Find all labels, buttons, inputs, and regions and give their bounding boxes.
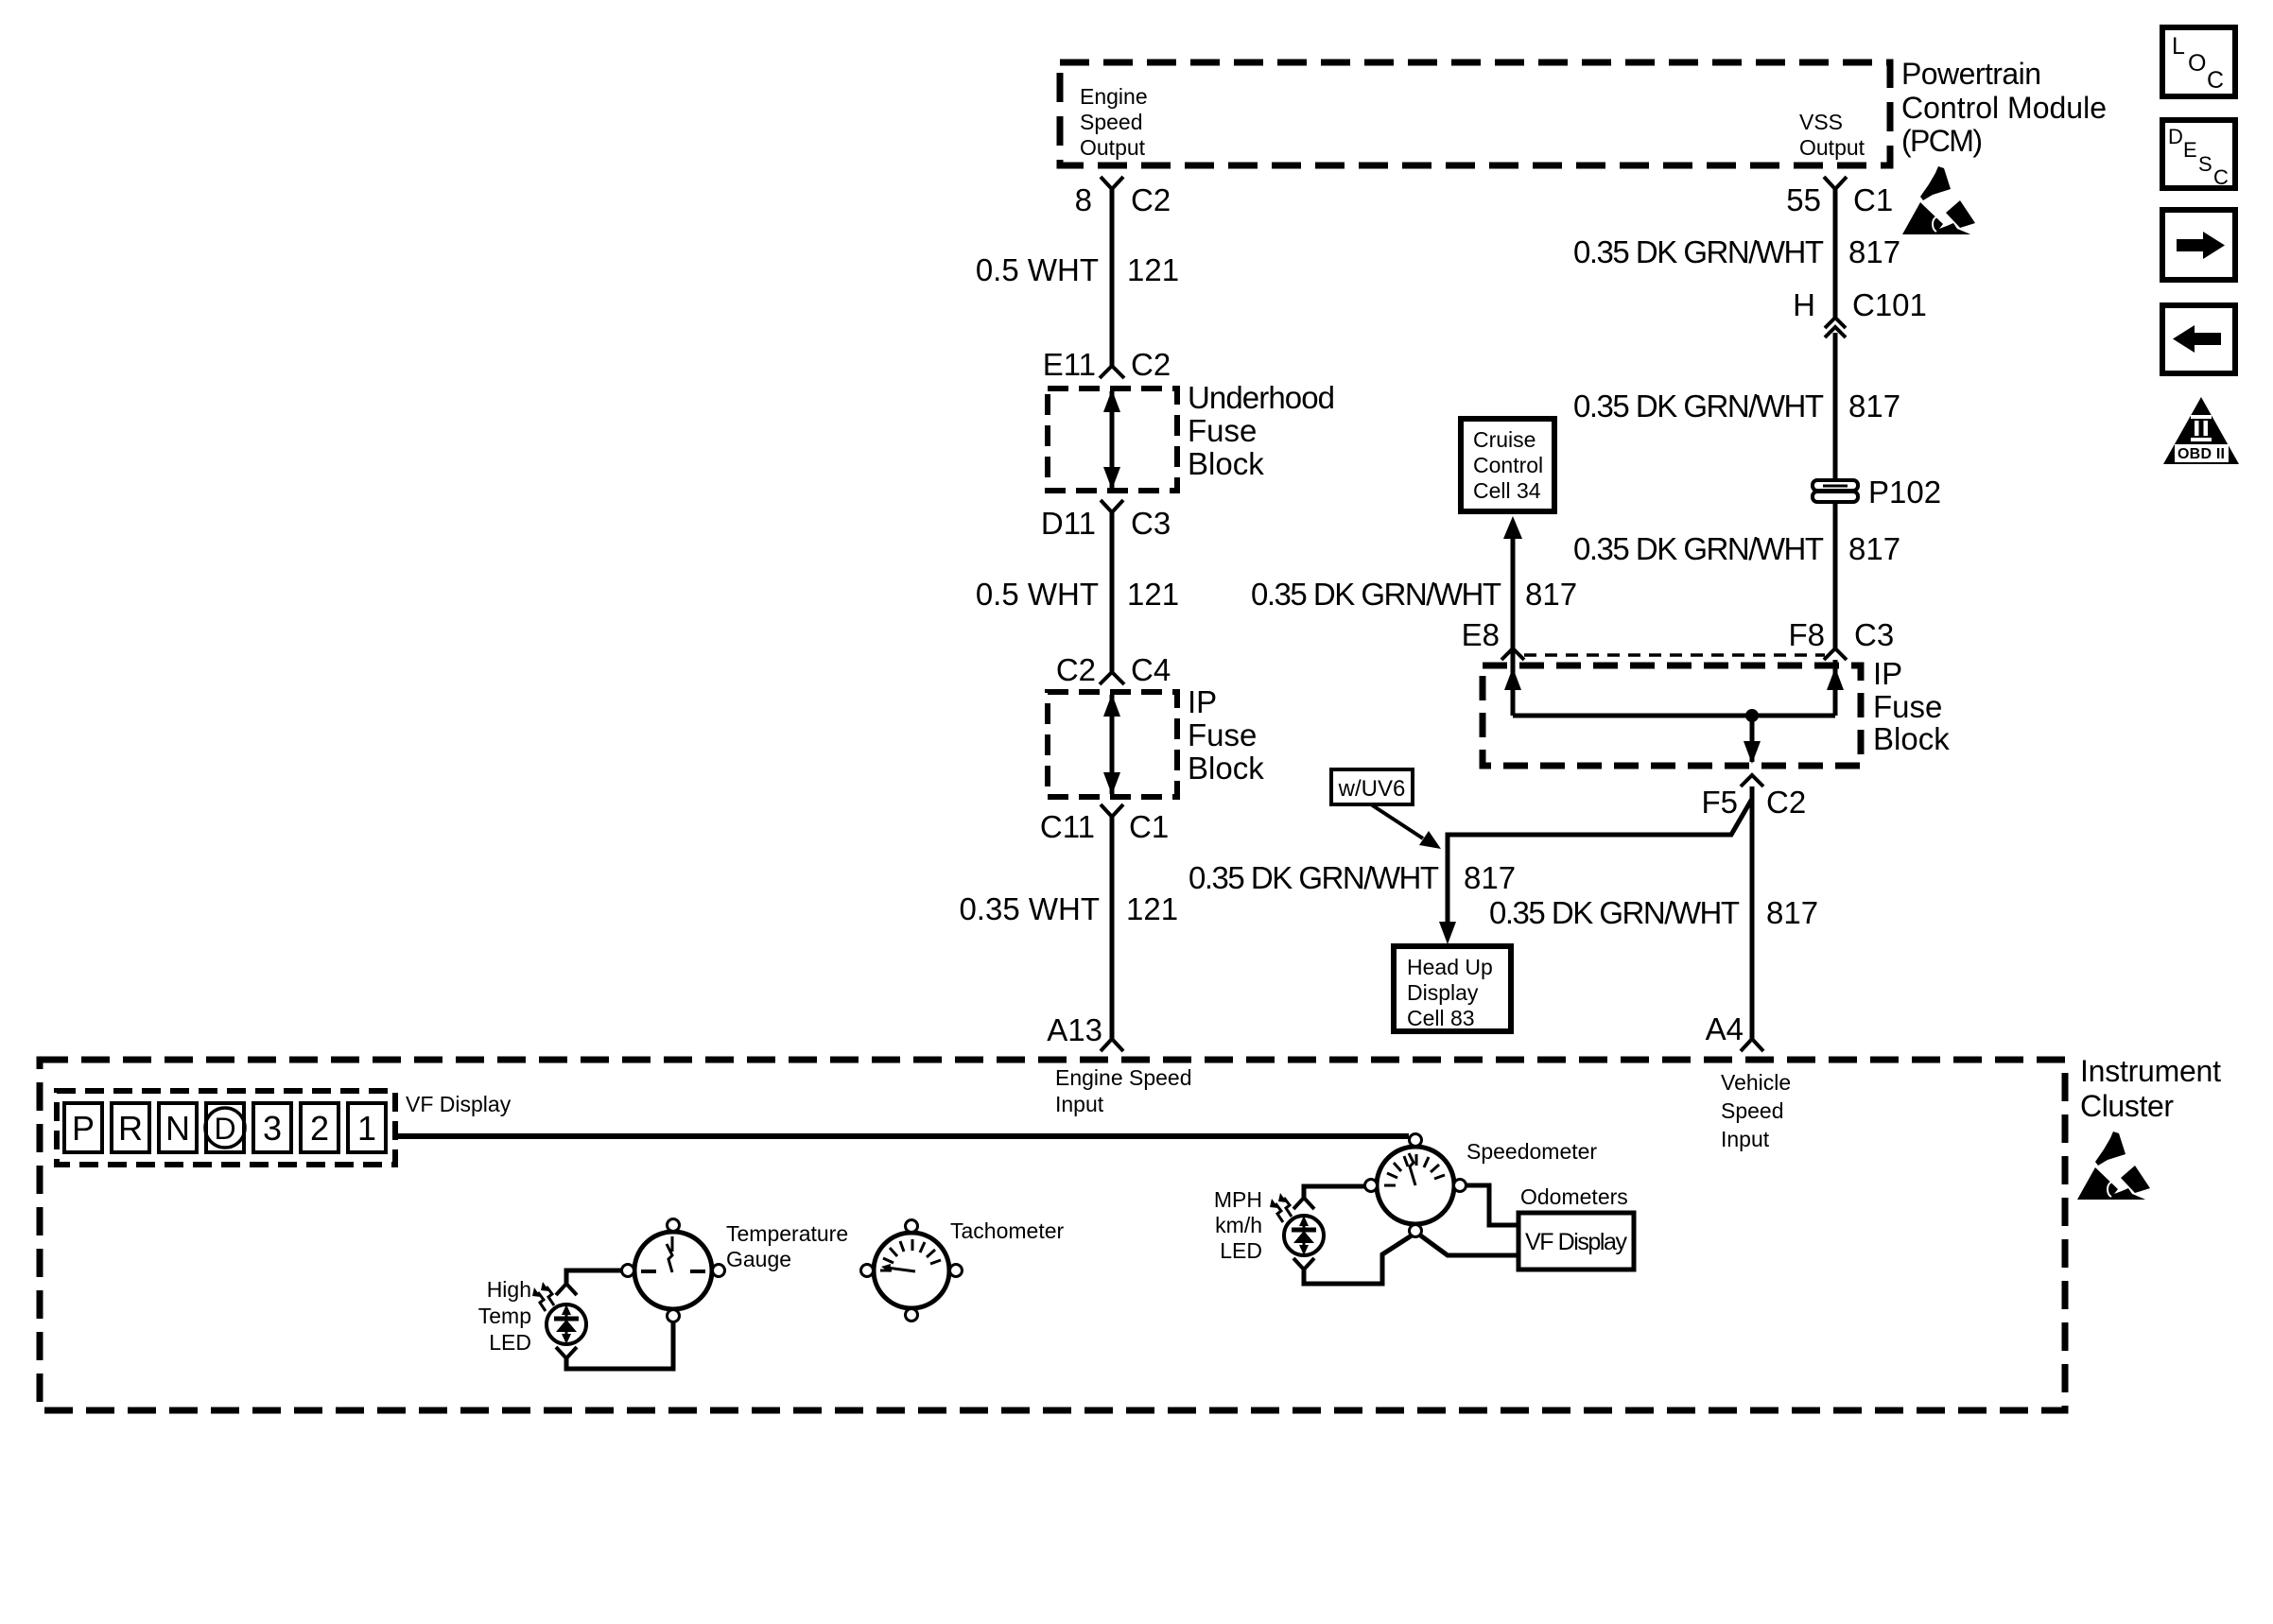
connector chevron E11 C2 bbox=[1100, 366, 1124, 378]
junction dot bbox=[1745, 709, 1759, 722]
svg-text:121: 121 bbox=[1126, 891, 1178, 926]
svg-text:0.35 DK GRN/WHT: 0.35 DK GRN/WHT bbox=[1251, 577, 1501, 612]
svg-text:C2: C2 bbox=[1056, 652, 1096, 687]
wire High Temp LED bottom loop to gauge bottom terminal bbox=[566, 1322, 673, 1369]
svg-text:R: R bbox=[118, 1109, 143, 1148]
svg-text:Fuse: Fuse bbox=[1188, 413, 1257, 448]
svg-text:Input: Input bbox=[1055, 1092, 1104, 1116]
svg-text:P102: P102 bbox=[1868, 475, 1941, 510]
svg-text:E8: E8 bbox=[1462, 617, 1500, 652]
svg-text:Engine Speed: Engine Speed bbox=[1055, 1065, 1192, 1090]
connector chevron E8 bbox=[1501, 648, 1524, 660]
in-line connector P102 bbox=[1813, 480, 1858, 502]
wire MPH LED bottom loop to speedometer bottom terminal bbox=[1304, 1235, 1412, 1284]
svg-text:Cell 83: Cell 83 bbox=[1407, 1006, 1475, 1030]
arrow up (IP fuse block top) bbox=[1103, 694, 1120, 717]
svg-text:C: C bbox=[2207, 67, 2224, 94]
svg-text:H: H bbox=[1793, 287, 1815, 322]
bus wire inside fuse block bbox=[1513, 714, 1835, 718]
svg-text:OBD II: OBD II bbox=[2178, 446, 2225, 462]
svg-text:O: O bbox=[2188, 50, 2206, 77]
Instrument Cluster title bbox=[2080, 1054, 2221, 1123]
svg-text:0.35 DK GRN/WHT: 0.35 DK GRN/WHT bbox=[1189, 860, 1439, 895]
arrow up inside block (F8) bbox=[1827, 667, 1844, 690]
wire 121 segment (PCM to underhood fuse block) bbox=[1110, 188, 1115, 366]
svg-text:C: C bbox=[2213, 165, 2229, 189]
svg-text:Temperature: Temperature bbox=[726, 1221, 848, 1246]
forward arrow icon box bbox=[2162, 210, 2235, 280]
svg-text:Cluster: Cluster bbox=[2080, 1089, 2174, 1123]
wire 121 segment (IP fuse block to cluster) bbox=[1110, 816, 1115, 1040]
svg-text:C2: C2 bbox=[1131, 347, 1171, 382]
svg-text:817: 817 bbox=[1525, 577, 1577, 612]
arrow up inside block (E8) bbox=[1504, 667, 1521, 690]
svg-text:D11: D11 bbox=[1041, 506, 1096, 541]
svg-text:IP: IP bbox=[1188, 684, 1217, 719]
MPH LED emission arrows bbox=[1270, 1193, 1292, 1222]
svg-text:F8: F8 bbox=[1788, 617, 1825, 652]
ESD sensitive symbol (instrument cluster) bbox=[2077, 1132, 2150, 1200]
svg-text:Block: Block bbox=[1188, 751, 1264, 786]
svg-text:Cell 34: Cell 34 bbox=[1473, 478, 1541, 503]
svg-text:Underhood: Underhood bbox=[1188, 380, 1335, 415]
connector chevron A13 bbox=[1101, 1039, 1123, 1051]
Speedometer bbox=[1365, 1134, 1466, 1237]
svg-text:Vehicle: Vehicle bbox=[1721, 1070, 1791, 1095]
label High Temp LED bbox=[478, 1277, 531, 1355]
svg-text:C101: C101 bbox=[1852, 287, 1927, 322]
chevron above High Temp LED bbox=[556, 1284, 577, 1295]
svg-text:S: S bbox=[2198, 152, 2212, 176]
arrow down to head up display bbox=[1439, 922, 1456, 944]
svg-text:C2: C2 bbox=[1131, 182, 1171, 217]
svg-text:MPH: MPH bbox=[1214, 1187, 1262, 1212]
wire down from junction bbox=[1750, 716, 1755, 762]
svg-text:High: High bbox=[487, 1277, 531, 1302]
label Underhood Fuse Block bbox=[1188, 380, 1335, 481]
arrow up (fuse block top) bbox=[1103, 389, 1120, 412]
Instrument Cluster dashed box bbox=[40, 1060, 2065, 1410]
PRNDL cell P bbox=[64, 1103, 102, 1152]
PRNDL cell 2 bbox=[301, 1103, 338, 1152]
svg-text:0.5 WHT: 0.5 WHT bbox=[976, 577, 1099, 612]
wire 817 segment (P102 to F8) bbox=[1833, 501, 1838, 649]
VF Display (PRNDL) dashed box bbox=[57, 1091, 395, 1165]
svg-text:VF Display: VF Display bbox=[406, 1092, 512, 1116]
svg-text:IP: IP bbox=[1873, 656, 1902, 691]
svg-text:Speedometer: Speedometer bbox=[1466, 1139, 1597, 1164]
High Temp LED emission arrows bbox=[532, 1282, 554, 1311]
svg-text:121: 121 bbox=[1127, 577, 1179, 612]
svg-text:Speed: Speed bbox=[1721, 1098, 1784, 1123]
label Engine Speed Input bbox=[1055, 1065, 1192, 1116]
label MPH km/h LED bbox=[1214, 1187, 1262, 1263]
label Temperature Gauge bbox=[726, 1221, 848, 1271]
svg-text:Display: Display bbox=[1407, 980, 1479, 1005]
svg-text:VF Display: VF Display bbox=[1525, 1229, 1628, 1255]
PRNDL cell 3 bbox=[253, 1103, 291, 1152]
svg-text:817: 817 bbox=[1848, 234, 1900, 269]
svg-text:3: 3 bbox=[263, 1109, 282, 1148]
PRNDL cell 1 bbox=[348, 1103, 386, 1152]
svg-text:817: 817 bbox=[1464, 860, 1516, 895]
svg-text:VSS: VSS bbox=[1799, 110, 1843, 134]
svg-text:0.5 WHT: 0.5 WHT bbox=[976, 252, 1099, 287]
svg-text:Speed: Speed bbox=[1080, 110, 1143, 134]
svg-text:Instrument: Instrument bbox=[2080, 1054, 2221, 1088]
w/UV6 pointer arrow bbox=[1371, 804, 1423, 838]
ESD sensitive symbol (PCM) bbox=[1902, 166, 1975, 234]
label Vehicle Speed Input bbox=[1721, 1070, 1791, 1151]
wire speedometer right terminal to odometer VF display bbox=[1466, 1185, 1518, 1225]
svg-text:D: D bbox=[2168, 125, 2183, 148]
PRNDL cell N bbox=[159, 1103, 197, 1152]
IP Fuse Block (right) dashed box bbox=[1483, 665, 1861, 766]
chevron above MPH LED bbox=[1293, 1198, 1314, 1209]
svg-text:E: E bbox=[2183, 138, 2197, 162]
LOC icon box bbox=[2162, 27, 2235, 96]
connector Y at C11 C1 bbox=[1101, 804, 1123, 817]
PCM pin label: Engine Speed Output bbox=[1080, 84, 1148, 160]
PRNDL cell R bbox=[112, 1103, 149, 1152]
svg-text:Gauge: Gauge bbox=[726, 1247, 791, 1271]
svg-text:0.35 DK GRN/WHT: 0.35 DK GRN/WHT bbox=[1573, 389, 1824, 423]
DESC icon box bbox=[2162, 120, 2235, 189]
wire 817 segment (C101 to P102) bbox=[1833, 333, 1838, 481]
connector Y at PCM pin 55 C1 bbox=[1824, 177, 1847, 189]
svg-text:Engine: Engine bbox=[1080, 84, 1148, 109]
svg-text:Block: Block bbox=[1188, 446, 1264, 481]
wire High Temp LED top to gauge left terminal bbox=[566, 1270, 621, 1284]
wire 817 segment (F5 to A4) bbox=[1750, 786, 1755, 1040]
svg-text:C3: C3 bbox=[1854, 617, 1894, 652]
High Temp LED bbox=[547, 1304, 586, 1344]
Underhood Fuse Block dashed box bbox=[1048, 389, 1177, 491]
Odometers VF Display box bbox=[1518, 1213, 1634, 1270]
svg-text:1: 1 bbox=[357, 1109, 376, 1148]
OBD II triangle icon bbox=[2163, 397, 2239, 464]
Temperature Gauge bbox=[622, 1219, 725, 1322]
svg-text:P: P bbox=[72, 1109, 95, 1148]
svg-text:0.35 DK GRN/WHT: 0.35 DK GRN/WHT bbox=[1489, 895, 1740, 930]
Cruise Control Cell 34 box bbox=[1461, 419, 1554, 511]
Head Up Display Cell 83 box bbox=[1394, 946, 1511, 1031]
arrow down (fuse block bottom) bbox=[1103, 467, 1120, 490]
svg-text:C2: C2 bbox=[1766, 785, 1806, 820]
wire E8 riser inside fuse block bbox=[1511, 660, 1516, 716]
wire 817 segment (PCM to C101) bbox=[1833, 188, 1838, 320]
chevron below High Temp LED bbox=[556, 1347, 577, 1358]
MPH km/h LED bbox=[1284, 1216, 1324, 1255]
wire speedometer bottom to odometer VF display bbox=[1419, 1235, 1518, 1255]
svg-text:Head Up: Head Up bbox=[1407, 955, 1493, 979]
svg-text:Odometers: Odometers bbox=[1520, 1184, 1628, 1209]
svg-text:121: 121 bbox=[1127, 252, 1179, 287]
svg-text:55: 55 bbox=[1786, 182, 1821, 217]
svg-text:817: 817 bbox=[1848, 531, 1900, 566]
svg-text:Cruise: Cruise bbox=[1473, 427, 1536, 452]
back arrow icon box bbox=[2162, 305, 2235, 373]
svg-text:Input: Input bbox=[1721, 1127, 1770, 1151]
svg-text:D: D bbox=[214, 1112, 235, 1146]
connector Y at D11 C3 bbox=[1101, 500, 1123, 512]
svg-text:C3: C3 bbox=[1131, 506, 1171, 541]
wire F8 riser inside fuse block bbox=[1833, 660, 1838, 716]
svg-text:Output: Output bbox=[1799, 135, 1865, 160]
connector Y at PCM pin 8 C2 bbox=[1101, 177, 1123, 189]
svg-text:0.35 DK GRN/WHT: 0.35 DK GRN/WHT bbox=[1573, 531, 1824, 566]
svg-text:Block: Block bbox=[1873, 721, 1950, 756]
connector chevron F8 C3 bbox=[1824, 648, 1847, 660]
svg-text:C1: C1 bbox=[1853, 182, 1893, 217]
wire E8 up to cruise control bbox=[1511, 532, 1516, 660]
connector chevron C2 C4 bbox=[1100, 672, 1124, 684]
connector chevron F5 C2 bbox=[1741, 775, 1763, 786]
svg-text:(PCM): (PCM) bbox=[1901, 124, 1983, 158]
svg-text:Control: Control bbox=[1473, 453, 1543, 477]
svg-text:N: N bbox=[165, 1109, 190, 1148]
label IP Fuse Block (right) bbox=[1873, 656, 1950, 756]
svg-text:2: 2 bbox=[310, 1109, 329, 1148]
arrow down (fuse block bottom exit) bbox=[1744, 741, 1761, 764]
svg-text:Fuse: Fuse bbox=[1873, 689, 1942, 724]
wire MPH LED top to speedometer left terminal bbox=[1304, 1186, 1365, 1198]
svg-text:C11: C11 bbox=[1040, 809, 1095, 844]
svg-text:km/h: km/h bbox=[1215, 1213, 1262, 1237]
svg-text:Output: Output bbox=[1080, 135, 1146, 160]
svg-text:A4: A4 bbox=[1706, 1011, 1744, 1046]
chevron below MPH LED bbox=[1293, 1258, 1314, 1270]
wire 121 segment (underhood to IP fuse block) bbox=[1110, 511, 1115, 673]
svg-text:0.35 DK GRN/WHT: 0.35 DK GRN/WHT bbox=[1573, 234, 1824, 269]
wire through underhood fuse block bbox=[1110, 391, 1115, 488]
PRNDL cell D with circle bbox=[205, 1103, 245, 1152]
svg-text:Control Module: Control Module bbox=[1901, 91, 2107, 125]
svg-text:Powertrain: Powertrain bbox=[1901, 57, 2041, 91]
Tachometer bbox=[861, 1220, 963, 1322]
Powertrain Control Module (PCM) dashed box bbox=[1060, 62, 1890, 165]
svg-text:LED: LED bbox=[1220, 1238, 1262, 1263]
svg-text:LED: LED bbox=[489, 1330, 531, 1355]
svg-text:Temp: Temp bbox=[478, 1304, 531, 1328]
svg-text:817: 817 bbox=[1848, 389, 1900, 423]
svg-text:Fuse: Fuse bbox=[1188, 717, 1257, 752]
svg-text:A13: A13 bbox=[1047, 1012, 1102, 1047]
svg-text:8: 8 bbox=[1075, 182, 1092, 217]
IP Fuse Block (left) dashed box bbox=[1048, 692, 1177, 797]
wire branch F5 to head-up display bbox=[1448, 799, 1752, 931]
PCM title text bbox=[1901, 57, 2107, 158]
svg-text:E11: E11 bbox=[1043, 347, 1096, 382]
label IP Fuse Block bbox=[1188, 684, 1264, 786]
wire through IP fuse block bbox=[1110, 695, 1115, 794]
svg-text:C4: C4 bbox=[1131, 652, 1171, 687]
hidden connection fine dashed line E8-F8 bbox=[1524, 653, 1825, 657]
svg-text:C1: C1 bbox=[1129, 809, 1169, 844]
svg-text:Tachometer: Tachometer bbox=[950, 1218, 1065, 1243]
wire VF display to speedometer bbox=[395, 1133, 1409, 1139]
arrow to cruise control bbox=[1503, 516, 1522, 539]
svg-text:w/UV6: w/UV6 bbox=[1338, 776, 1406, 802]
arrow down (IP fuse block bottom) bbox=[1103, 772, 1120, 795]
connector C101 double chevron bbox=[1825, 318, 1846, 328]
svg-text:L: L bbox=[2172, 33, 2185, 60]
PCM pin label: VSS Output bbox=[1799, 110, 1865, 160]
connector chevron A4 bbox=[1741, 1039, 1763, 1051]
w/UV6 option box bbox=[1331, 769, 1413, 804]
svg-text:817: 817 bbox=[1766, 895, 1818, 930]
svg-text:F5: F5 bbox=[1701, 785, 1738, 820]
svg-text:0.35 WHT: 0.35 WHT bbox=[959, 891, 1100, 926]
